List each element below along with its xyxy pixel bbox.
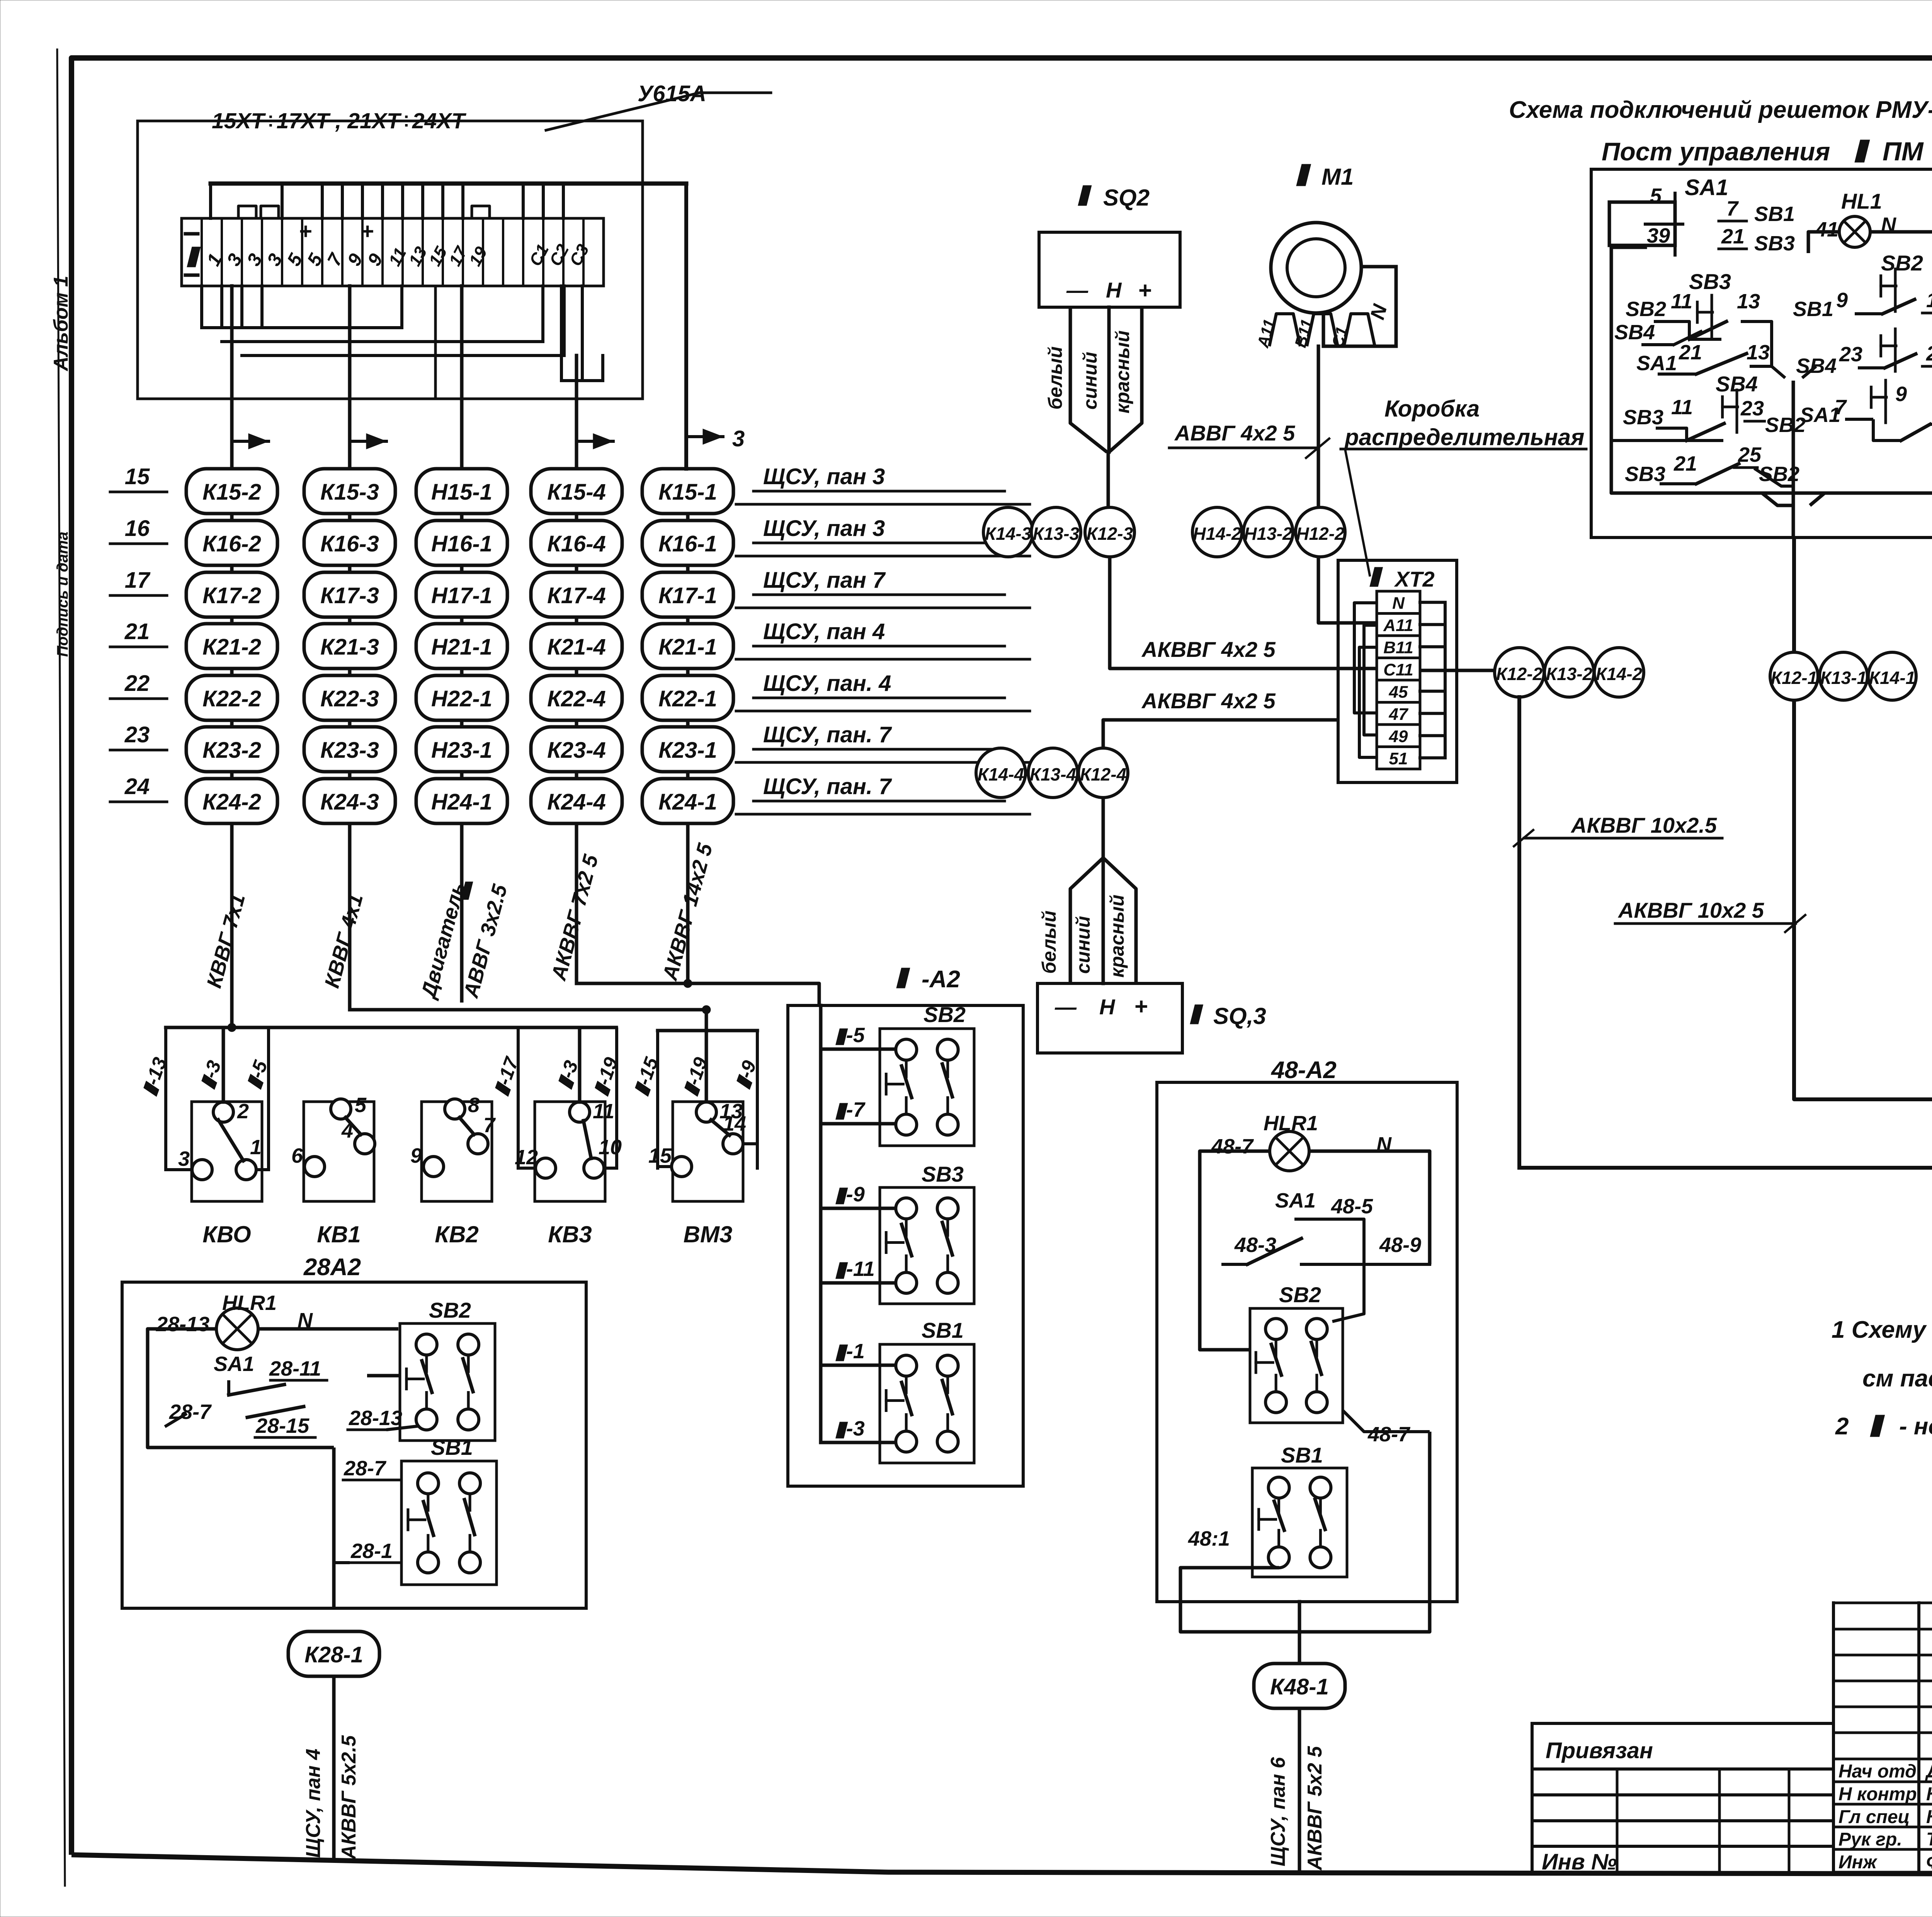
svg-text:23: 23	[1740, 397, 1764, 420]
svg-text:23: 23	[1839, 343, 1862, 366]
svg-text:48-А2: 48-А2	[1270, 1057, 1337, 1084]
svg-text:красный: красный	[1112, 330, 1133, 413]
svg-text:SB2: SB2	[429, 1298, 471, 1322]
svg-text:SB1: SB1	[1793, 298, 1833, 321]
svg-text:+: +	[1138, 277, 1151, 303]
svg-text:К22-2: К22-2	[202, 686, 261, 711]
svg-text:Тарасова: Тарасова	[1926, 1829, 1932, 1850]
svg-text:39: 39	[1647, 224, 1670, 247]
svg-text:К17-4: К17-4	[547, 583, 606, 608]
svg-text:13: 13	[1747, 341, 1770, 364]
svg-text:К21-3: К21-3	[320, 634, 379, 660]
svg-text:48-7: 48-7	[1367, 1423, 1411, 1446]
svg-text:SA1: SA1	[1636, 352, 1677, 375]
svg-text:Нач отд: Нач отд	[1838, 1761, 1917, 1782]
svg-text:1 Схему электрическую принцип: 1 Схему электрическую принципиальную реш…	[1832, 1317, 1932, 1343]
svg-text:синий: синий	[1072, 916, 1094, 974]
svg-text:24: 24	[124, 774, 150, 799]
svg-text:2: 2	[1835, 1413, 1849, 1440]
svg-text:см паспорт РМУ Б.00 00. 000 ПС: см паспорт РМУ Б.00 00. 000 ПС, L 25 КБ …	[1862, 1365, 1932, 1392]
svg-text:А11: А11	[1383, 616, 1413, 635]
svg-text:Н контр: Н контр	[1838, 1784, 1917, 1805]
svg-text:25: 25	[1926, 342, 1932, 365]
svg-text:распределительная: распределительная	[1344, 424, 1585, 450]
svg-text:SB3: SB3	[1623, 406, 1663, 429]
svg-text:28А2: 28А2	[303, 1254, 361, 1281]
svg-text:К22-1: К22-1	[658, 686, 717, 711]
svg-text:К17-2: К17-2	[202, 583, 261, 608]
svg-text:Подпись и дата: Подпись и дата	[54, 532, 71, 657]
svg-text:К16-3: К16-3	[320, 531, 379, 556]
svg-text:5: 5	[1650, 184, 1662, 208]
svg-text:11: 11	[1926, 289, 1932, 312]
svg-text:SB2: SB2	[923, 1002, 966, 1027]
svg-text:К15-4: К15-4	[547, 480, 606, 505]
svg-text:ЩСУ, пан 3: ЩСУ, пан 3	[763, 464, 885, 489]
svg-text:Рук гр.: Рук гр.	[1838, 1829, 1902, 1850]
svg-text:- номер эл. привода по плану: - номер эл. привода по плану	[1899, 1413, 1932, 1440]
svg-text:28-7: 28-7	[344, 1457, 387, 1480]
svg-text:синий: синий	[1079, 352, 1101, 410]
svg-text:К24-4: К24-4	[547, 789, 606, 815]
svg-text:К21-1: К21-1	[658, 634, 717, 660]
svg-text:15: 15	[648, 1144, 672, 1167]
svg-text:23: 23	[124, 722, 150, 747]
svg-text:SB3: SB3	[1689, 269, 1731, 294]
svg-text:SB3: SB3	[922, 1162, 964, 1186]
svg-text:К12-1: К12-1	[1771, 668, 1817, 688]
svg-text:8: 8	[468, 1094, 480, 1117]
svg-text:SB2: SB2	[1881, 251, 1923, 275]
svg-text:47: 47	[1389, 705, 1409, 724]
svg-text:5: 5	[355, 1094, 367, 1117]
svg-text:Н17-1: Н17-1	[431, 583, 492, 608]
svg-text:К16-2: К16-2	[202, 531, 261, 556]
svg-text:SB3: SB3	[1754, 232, 1795, 255]
svg-text:К23-3: К23-3	[320, 738, 379, 763]
svg-text:Н: Н	[1099, 995, 1116, 1019]
svg-text:К12-2: К12-2	[1496, 664, 1543, 684]
svg-text:ЩСУ, пан 4: ЩСУ, пан 4	[763, 619, 885, 644]
svg-text:АКВВГ 5х2.5: АКВВГ 5х2.5	[338, 1735, 360, 1860]
svg-text:SB2: SB2	[1279, 1283, 1321, 1307]
svg-text:К21-4: К21-4	[547, 634, 606, 660]
svg-text:К14-4: К14-4	[978, 764, 1024, 784]
svg-text:К17-1: К17-1	[658, 583, 717, 608]
svg-text:В11: В11	[1383, 638, 1413, 657]
svg-text:КВ2: КВ2	[435, 1221, 479, 1247]
svg-text:ХТ2: ХТ2	[1394, 567, 1435, 591]
svg-text:21: 21	[1721, 225, 1745, 248]
svg-text:▮-5: ▮-5	[835, 1024, 865, 1047]
svg-text:К24-3: К24-3	[320, 789, 379, 815]
svg-text:Н22-1: Н22-1	[431, 686, 492, 711]
svg-text:Н12-2: Н12-2	[1296, 524, 1345, 544]
svg-text:+: +	[299, 219, 312, 244]
svg-text:SB1: SB1	[431, 1435, 473, 1459]
svg-text:ЩСУ, пан 7: ЩСУ, пан 7	[763, 568, 886, 593]
svg-text:28-1: 28-1	[350, 1539, 393, 1563]
svg-text:К14-3: К14-3	[985, 524, 1032, 544]
svg-text:49: 49	[1389, 727, 1408, 746]
svg-text:Н16-1: Н16-1	[431, 531, 492, 556]
svg-text:ЩСУ, пан. 7: ЩСУ, пан. 7	[763, 774, 892, 799]
svg-text:11: 11	[1671, 396, 1693, 419]
svg-text:N: N	[1392, 594, 1405, 613]
svg-text:41: 41	[1815, 218, 1838, 241]
svg-text:ЩСУ, пан. 4: ЩСУ, пан. 4	[763, 671, 891, 696]
svg-text:-А2: -А2	[922, 966, 960, 993]
svg-text:Кудряшов: Кудряшов	[1926, 1784, 1932, 1805]
svg-text:▮-7: ▮-7	[835, 1098, 866, 1121]
svg-text:АКВВГ 10х2.5: АКВВГ 10х2.5	[1570, 813, 1717, 837]
svg-text:ЩСУ, пан 6: ЩСУ, пан 6	[1267, 1757, 1289, 1866]
svg-text:25: 25	[1738, 443, 1762, 466]
svg-text:9: 9	[1895, 383, 1907, 406]
svg-text:10: 10	[599, 1136, 622, 1159]
svg-text:К28-1: К28-1	[304, 1642, 363, 1667]
svg-text:АВВГ 4х2 5: АВВГ 4х2 5	[1174, 421, 1295, 445]
svg-text:К16-1: К16-1	[658, 531, 717, 556]
svg-text:Альбом 1: Альбом 1	[50, 276, 72, 372]
svg-text:11: 11	[593, 1100, 614, 1123]
svg-text:К16-4: К16-4	[547, 531, 606, 556]
svg-text:9: 9	[410, 1144, 422, 1167]
svg-text:АКВВГ 4х2 5: АКВВГ 4х2 5	[1141, 637, 1276, 662]
svg-text:48-7: 48-7	[1211, 1135, 1254, 1158]
svg-text:2: 2	[237, 1100, 249, 1123]
svg-text:К24-2: К24-2	[202, 789, 261, 815]
svg-text:1: 1	[250, 1136, 262, 1159]
svg-text:▮-9: ▮-9	[835, 1183, 865, 1206]
svg-text:АКВВГ 5х2 5: АКВВГ 5х2 5	[1304, 1746, 1326, 1871]
svg-text:15ХТ÷17ХТ , 21ХТ÷24ХТ: 15ХТ÷17ХТ , 21ХТ÷24ХТ	[212, 109, 466, 133]
svg-text:—: —	[1054, 995, 1077, 1019]
svg-text:SA1: SA1	[214, 1352, 254, 1376]
svg-text:12: 12	[515, 1146, 538, 1169]
svg-text:белый: белый	[1044, 346, 1066, 410]
svg-text:К23-1: К23-1	[658, 738, 717, 763]
svg-text:Схема подключений решеток Р: Схема подключений решеток РМУ-4Б (поз 12…	[1509, 97, 1932, 123]
svg-text:К15-2: К15-2	[202, 480, 261, 505]
svg-text:К13-2: К13-2	[1546, 664, 1593, 684]
svg-text:Филиппова: Филиппова	[1926, 1852, 1932, 1873]
svg-text:22: 22	[124, 671, 150, 696]
svg-text:3: 3	[732, 426, 745, 451]
svg-text:ЩСУ, пан 3: ЩСУ, пан 3	[763, 516, 885, 541]
svg-text:HLR1: HLR1	[222, 1291, 277, 1315]
svg-text:Кудряшов: Кудряшов	[1926, 1807, 1932, 1827]
svg-text:К23-4: К23-4	[547, 738, 606, 763]
svg-text:7: 7	[1835, 396, 1847, 419]
svg-text:К22-4: К22-4	[547, 686, 606, 711]
svg-text:красный: красный	[1106, 895, 1128, 978]
svg-text:К48-1: К48-1	[1270, 1674, 1329, 1699]
svg-text:белый: белый	[1038, 910, 1060, 974]
svg-text:—: —	[1066, 278, 1088, 302]
svg-text:7: 7	[1726, 197, 1739, 220]
svg-text:ПМ: ПМ	[1883, 137, 1924, 166]
svg-text:28-13: 28-13	[349, 1407, 402, 1430]
svg-text:К17-3: К17-3	[320, 583, 379, 608]
svg-text:М1: М1	[1321, 164, 1354, 190]
svg-text:К15-3: К15-3	[320, 480, 379, 505]
svg-text:Н24-1: Н24-1	[431, 789, 492, 815]
svg-text:SB1: SB1	[1754, 202, 1795, 226]
svg-text:К15-1: К15-1	[658, 480, 717, 505]
svg-text:SB4: SB4	[1614, 321, 1655, 344]
svg-text:Гл спец: Гл спец	[1838, 1807, 1910, 1827]
svg-text:К14-1: К14-1	[1869, 668, 1915, 688]
svg-text:Н13-2: Н13-2	[1244, 524, 1293, 544]
svg-text:6: 6	[291, 1144, 303, 1167]
svg-text:Инв №: Инв №	[1542, 1849, 1617, 1874]
svg-text:КВ3: КВ3	[548, 1221, 592, 1247]
svg-text:Н: Н	[1106, 278, 1122, 302]
svg-text:Инж: Инж	[1838, 1852, 1878, 1873]
svg-text:Пост управления: Пост управления	[1602, 137, 1830, 166]
svg-text:28-13: 28-13	[156, 1313, 209, 1336]
svg-text:К14-2: К14-2	[1596, 664, 1643, 684]
svg-text:SQ,3: SQ,3	[1213, 1003, 1266, 1029]
svg-text:SB4: SB4	[1796, 354, 1837, 378]
svg-text:SB2: SB2	[1626, 298, 1666, 321]
svg-text:13: 13	[1737, 290, 1760, 313]
svg-text:21: 21	[1679, 341, 1702, 364]
svg-text:▮-3: ▮-3	[835, 1417, 865, 1440]
svg-text:С11: С11	[1383, 660, 1413, 679]
svg-text:SB1: SB1	[922, 1318, 964, 1342]
svg-text:К21-2: К21-2	[202, 634, 261, 660]
svg-text:28-11: 28-11	[269, 1357, 321, 1380]
svg-text:КВ1: КВ1	[317, 1221, 361, 1247]
svg-text:КВО: КВО	[202, 1221, 251, 1247]
svg-text:АКВВГ 10х2 5: АКВВГ 10х2 5	[1617, 898, 1764, 922]
svg-text:К13-4: К13-4	[1030, 764, 1076, 784]
svg-text:15: 15	[125, 464, 150, 489]
svg-text:Н14-2: Н14-2	[1193, 524, 1242, 544]
svg-text:▮-11: ▮-11	[835, 1257, 875, 1281]
svg-text:28-15: 28-15	[255, 1414, 310, 1437]
svg-text:21: 21	[1673, 452, 1697, 475]
svg-text:ВМ3: ВМ3	[684, 1221, 733, 1247]
svg-text:+: +	[361, 219, 374, 244]
svg-text:21: 21	[124, 619, 150, 644]
svg-text:9: 9	[1836, 289, 1848, 312]
svg-text:К24-1: К24-1	[658, 789, 717, 815]
svg-text:SB1: SB1	[1281, 1443, 1323, 1467]
svg-text:48-5: 48-5	[1331, 1195, 1373, 1218]
svg-text:HL1: HL1	[1841, 189, 1882, 213]
svg-text:К23-2: К23-2	[202, 738, 261, 763]
svg-text:48:1: 48:1	[1188, 1527, 1230, 1550]
svg-text:Н15-1: Н15-1	[431, 480, 492, 505]
svg-text:ЩСУ, пан. 7: ЩСУ, пан. 7	[763, 722, 892, 747]
svg-text:Привязан: Привязан	[1546, 1738, 1653, 1763]
svg-text:17: 17	[125, 568, 151, 593]
svg-text:ЩСУ, пан 4: ЩСУ, пан 4	[302, 1749, 325, 1858]
svg-text:45: 45	[1389, 683, 1408, 702]
svg-text:SA1: SA1	[1685, 175, 1728, 200]
svg-text:7: 7	[483, 1114, 496, 1137]
svg-text:SQ2: SQ2	[1103, 185, 1150, 211]
svg-text:SA1: SA1	[1275, 1189, 1316, 1212]
svg-text:HLR1: HLR1	[1264, 1112, 1318, 1135]
svg-text:К22-3: К22-3	[320, 686, 379, 711]
svg-text:Коробка: Коробка	[1384, 396, 1480, 422]
svg-text:+: +	[1134, 993, 1148, 1019]
svg-text:3: 3	[178, 1147, 190, 1170]
svg-text:АКВВГ 4х2 5: АКВВГ 4х2 5	[1141, 689, 1276, 713]
svg-text:К13-1: К13-1	[1820, 668, 1867, 688]
svg-text:51: 51	[1389, 749, 1408, 768]
svg-text:48-9: 48-9	[1379, 1233, 1421, 1257]
svg-text:Н23-1: Н23-1	[431, 738, 492, 763]
svg-text:К12-4: К12-4	[1080, 764, 1126, 784]
svg-text:К12-3: К12-3	[1087, 524, 1133, 544]
svg-text:▮-1: ▮-1	[835, 1340, 865, 1363]
svg-text:SB3: SB3	[1625, 463, 1665, 486]
svg-text:Н21-1: Н21-1	[431, 634, 492, 660]
svg-text:К13-3: К13-3	[1033, 524, 1080, 544]
svg-text:16: 16	[125, 516, 150, 541]
